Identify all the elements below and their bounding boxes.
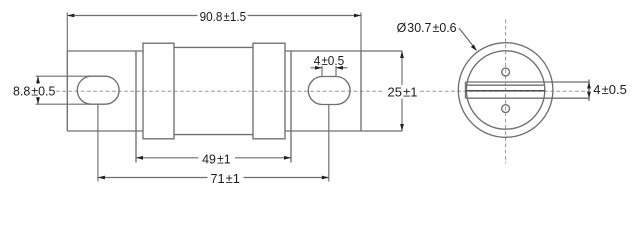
svg-text:4 ±0.5: 4 ±0.5 bbox=[314, 53, 345, 68]
svg-text:90.8 ±1.5: 90.8 ±1.5 bbox=[200, 9, 247, 24]
svg-text:49 ±1: 49 ±1 bbox=[202, 151, 231, 166]
svg-text:Ø 30.7 ±0.6: Ø 30.7 ±0.6 bbox=[397, 20, 457, 35]
svg-text:8.8 ±0.5: 8.8 ±0.5 bbox=[13, 83, 56, 98]
svg-text:71 ±1: 71 ±1 bbox=[210, 171, 240, 186]
svg-text:25 ±1: 25 ±1 bbox=[388, 84, 418, 99]
svg-text:4 ±0.5: 4 ±0.5 bbox=[593, 82, 627, 97]
